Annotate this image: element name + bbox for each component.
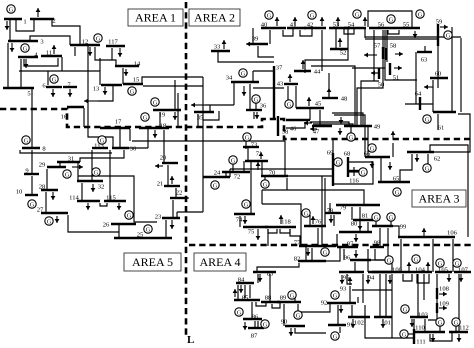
wire 66-65 v [380,158,382,182]
wire 97-96 v [343,249,345,260]
bus 92 [327,302,356,304]
wire 114-115 u [100,203,107,206]
load arrow at bus 117 [119,48,121,57]
svg-text:14: 14 [134,60,141,67]
wire 35 low link [203,111,219,120]
wire 24 left v [202,169,204,212]
load arrow at bus 7 [69,89,71,97]
wire 111 G link [408,333,414,335]
svg-text:115: 115 [106,194,116,201]
load arrow at bus 71 [260,152,262,159]
bus 89 [277,301,301,303]
wire 98-94? v [367,249,369,272]
svg-text:75: 75 [248,228,255,235]
wire 60 stub [437,78,439,88]
svg-text:109: 109 [439,300,450,307]
bus 80 [339,231,372,233]
load arrow at bus 108 [439,293,447,295]
generator at bus 69 [334,158,342,166]
load arrow at bus 21 [171,176,173,184]
bus 72 [222,171,250,173]
svg-text:G: G [254,96,259,103]
wire 44-53 link [305,28,348,73]
bus 47 [312,125,332,127]
wire 56-59 d1 [365,36,461,38]
svg-text:86: 86 [252,313,259,320]
svg-text:110: 110 [415,324,425,331]
bus 1 [4,18,22,20]
bus 78 [325,212,341,214]
svg-text:G: G [263,321,268,328]
generator at bus 34 [239,69,247,77]
AREA 4 label box [194,253,246,271]
wire 40-41 u [283,28,293,36]
svg-text:11: 11 [46,49,52,56]
svg-text:87: 87 [251,332,258,339]
svg-text:12: 12 [82,38,89,45]
bus 19 [153,109,181,111]
wire 107-112 v [458,274,460,332]
wire 25-23 v [165,220,167,237]
generator at bus 77 [321,248,329,256]
wire 34-35 line [205,104,234,106]
wire 12-16 v [87,46,89,110]
wire 56-59 d2 [365,38,438,40]
svg-text:62: 62 [434,155,441,162]
wire 15 h2 [143,85,203,87]
load arrow at bus 81 [359,222,361,230]
load arrow at bus 35 [191,104,205,106]
wire 66 up stub [392,143,394,157]
bus 87 [248,327,264,329]
wire 104-103 v [417,274,419,317]
svg-text:G: G [374,214,379,221]
svg-text:24: 24 [214,169,221,176]
wire 16-113 link [88,110,113,148]
bus 108 [436,288,438,299]
svg-text:21: 21 [157,180,164,187]
load arrow at bus 33 [223,40,225,49]
wire 56-55 loop [368,11,412,27]
generator at bus 70 [261,180,269,188]
svg-text:G: G [425,165,430,172]
bus 30 [112,147,129,149]
wire 92-91 v [337,305,339,325]
bus 77 [299,245,336,247]
load arrow at bus 70 [257,162,259,170]
generator at bus 91 [331,332,339,340]
svg-text:81: 81 [362,212,369,219]
svg-text:G: G [361,169,366,176]
wire 68-65 loop [332,162,373,184]
bus 66 [365,156,390,158]
svg-text:22: 22 [176,189,183,196]
svg-text:G: G [153,99,158,106]
generator at bus 110 [436,318,444,326]
bus 36 [246,109,262,111]
bus 29 [47,166,66,168]
bus 20 [162,162,178,164]
wire 70-76 v [324,178,326,226]
wire 112 G stub a [455,326,457,332]
bus 3 [8,40,38,42]
wire 12-14 [95,47,116,66]
wire 81-80 v [367,222,369,232]
generator at bus 42 [308,11,316,19]
bus 115 [104,200,126,202]
wire 69 up to dashed [332,139,334,153]
svg-text:104: 104 [415,266,426,273]
wire 27-25 [68,215,119,232]
wire 70-79 long [262,190,364,204]
svg-text:83: 83 [267,270,274,277]
load arrow at bus 59 [440,26,448,28]
svg-text:AREA 4: AREA 4 [199,255,240,269]
load arrow at bus 101 [382,319,384,328]
AREA 1 label box [128,9,183,26]
load arrow at bus 76 [312,216,314,224]
bus 69 [332,153,334,186]
area boundary vertical dashed line [185,2,188,336]
wire 103-110 v2 [424,319,426,332]
bus 62 [407,151,434,153]
wire 76 G stub [309,215,311,226]
bus 6 [46,86,62,88]
svg-text:18: 18 [160,122,167,129]
svg-text:98: 98 [374,239,381,246]
svg-text:97: 97 [347,240,354,247]
bus 64 [419,97,421,110]
wire 49-66 v2 [367,127,369,157]
svg-text:28: 28 [39,183,46,190]
generator at bus 8 [22,136,30,144]
svg-text:G: G [52,76,57,83]
load arrow at bus 13 [104,87,106,95]
wire 37 top h [253,70,274,72]
svg-text:69: 69 [327,149,334,156]
wire 92 G stub [357,297,359,303]
wire 35 down stub [197,114,199,127]
wire 70-77 v long [321,176,323,246]
wire 45-47 [319,110,321,126]
wire 15 h1 [142,77,203,84]
bus 17 [100,127,130,129]
load arrow at bus 107 [460,274,462,282]
svg-text:AREA 1: AREA 1 [135,11,176,25]
load arrow at bus 55 [414,31,416,38]
svg-text:43: 43 [277,80,284,87]
wire 110 G stub [439,326,441,332]
wire 3-12 [30,36,70,45]
wire 70 drop [286,178,288,190]
svg-text:54: 54 [348,21,355,28]
generator at bus 113 [98,136,106,144]
wire 50-49 b3 [361,81,379,126]
wire 45-46 [309,108,311,120]
bus 23 [162,217,180,219]
load arrow at bus 118 [280,215,282,224]
svg-text:20: 20 [160,154,167,161]
generator at bus 45 [285,100,293,108]
svg-text:93: 93 [340,285,347,292]
bus 16 [67,106,84,108]
load arrow at bus 42 [321,17,323,26]
wire 46-49 b4 [310,122,349,126]
wire 61 down stub [437,114,439,130]
svg-text:32: 32 [98,183,105,190]
generator at bus 74 [242,200,250,208]
svg-text:G: G [143,114,148,121]
load arrow at bus 80 [355,234,357,242]
wire 88-89 u [272,302,280,308]
svg-text:G: G [336,159,341,166]
wire 4-11 [24,58,58,66]
svg-text:42: 42 [307,21,314,28]
bus 12 [70,44,100,46]
wire 86-87 v [254,321,256,328]
bus 61 [433,111,456,113]
svg-text:106: 106 [447,229,458,236]
svg-text:G: G [127,212,132,219]
generator at bus 89 [288,291,296,299]
svg-text:44: 44 [314,68,321,75]
load arrow at bus 85 [234,289,236,297]
bus 33 [211,50,230,52]
wire 47-49 b8 [334,115,365,126]
svg-text:90: 90 [281,318,288,325]
wire 92-102 v [351,305,353,317]
wire 118 u1 [268,229,277,233]
wire 89-92 link [298,303,330,312]
wire 82-97? link [326,247,340,261]
wire 77-82 v [305,246,307,261]
svg-text:53: 53 [333,21,340,28]
load arrow at bus 112 [458,334,460,342]
bus 28 [41,189,58,191]
wire 54 u [344,29,354,34]
load arrow at bus 16 [84,100,98,102]
AREA 5 label box [124,253,181,271]
wire 39-40 [252,28,254,44]
bus 39 [250,43,268,45]
svg-text:72: 72 [234,173,241,180]
load arrow at bus 53 [337,17,339,26]
svg-text:85: 85 [242,294,249,301]
bus 34 [231,81,259,83]
wire 22-23 [172,200,174,218]
bus 114 [77,200,100,202]
load arrow at bus 12 [89,47,91,56]
wire 34-43 h [253,87,284,89]
generator at bus 24 [211,181,219,189]
svg-text:29: 29 [39,161,46,168]
svg-text:G: G [446,32,451,39]
load arrow at bus 96 [355,250,357,258]
load arrow at bus 114 [87,203,89,210]
wire 77-82 v2 [311,248,313,261]
generator at bus 107 [453,259,461,267]
svg-text:G: G [263,181,268,188]
generator at bus 18 [141,113,149,121]
svg-text:G: G [355,11,360,18]
wire 24-69 long [230,168,333,170]
generator at bus 92 [331,291,339,299]
svg-text:G: G [30,201,35,208]
bus 110 [415,331,445,333]
svg-text:AREA 3: AREA 3 [418,192,459,206]
svg-text:103: 103 [418,311,429,318]
bus 58 [385,48,387,60]
load arrow at bus 106 [423,228,425,236]
svg-text:G: G [290,292,295,299]
svg-text:10: 10 [16,188,23,195]
wire 84-85 v3 [237,285,239,300]
wire 23 stub [176,212,178,218]
wire 69 G stub [335,161,338,163]
bus 45 [296,107,324,109]
load arrow at bus 57 [364,54,377,56]
wire 44-48 v [328,73,330,98]
wire 103-110 v [413,319,415,332]
generator at bus 68 [359,168,367,176]
wire 59-60 v [437,46,439,78]
svg-text:G: G [438,319,443,326]
wire 110-112 link [430,332,452,341]
bus 46 [286,119,310,121]
bus 55 [396,27,420,29]
load arrow at bus 103 [411,319,413,327]
wire 23-24 h [177,211,203,213]
wire 2-12 [52,19,80,45]
wire 44-49 b1 [311,66,355,126]
bus 70 [261,175,288,177]
wire 84-85 v2 [249,285,251,298]
wire 56-50 v [373,30,375,81]
load arrow at bus 92 [340,305,342,313]
bus 102 [348,316,370,318]
bus 21 [164,185,180,187]
svg-text:99: 99 [400,223,407,230]
svg-text:G: G [403,306,408,313]
load arrow at bus 66c [389,162,391,170]
svg-text:117: 117 [108,38,118,45]
svg-text:19: 19 [159,111,166,118]
bus 43 [284,83,298,85]
area boundary horizontal dashed line (areas 1/5 and 2/3) [0,109,474,139]
wire 15-16 link [98,85,113,101]
wire 74-77 link [262,204,301,246]
load arrow at bus 45 [308,97,310,106]
svg-text:57: 57 [374,42,381,49]
svg-text:31: 31 [68,155,75,162]
wire 75-118 v [267,229,269,246]
svg-text:L: L [187,334,194,346]
wire 19-18 [159,112,161,128]
generator at bus 54 [353,10,361,18]
wire 11-13 v [99,58,101,85]
wire 109-103 link [428,313,437,320]
wire 37-34 v [252,71,254,82]
svg-text:60: 60 [435,70,442,77]
svg-text:G: G [418,11,423,18]
bus 100 [372,271,404,273]
bus 117 [106,45,125,47]
svg-text:52: 52 [340,49,347,56]
bus 60 [430,77,448,79]
load arrow at bus 36 [256,112,258,119]
bus 90 [285,325,305,327]
bus 86 [243,318,262,320]
bus 32 [77,180,103,182]
bus 65 [378,181,410,183]
svg-text:76: 76 [315,218,322,225]
wire 39-37 [258,46,274,57]
load arrow at bus 20 [155,165,163,167]
load arrow at bus 1 [6,21,8,30]
load arrow at bus 48 [328,88,330,96]
load arrow at bus 28 [52,192,54,200]
svg-text:35: 35 [197,114,204,121]
load arrow at bus 74 [244,216,246,224]
load arrow at bus 32 [92,184,94,192]
bus 25 [114,237,172,239]
svg-text:84: 84 [238,276,245,283]
generator at bus 112a [452,318,460,326]
svg-text:27: 27 [37,206,44,213]
bus 52 [330,48,348,50]
bus 83 [253,271,276,273]
wire 100-111 v [391,274,393,338]
bus 31 [57,161,80,163]
generator at bus 4 [21,44,29,52]
svg-text:34: 34 [226,74,233,81]
bus 71 [245,160,268,162]
svg-text:80: 80 [351,220,358,227]
generator at bus 15 [128,87,136,95]
generator at bus 87 [261,320,269,328]
wire 106-100 v [400,239,402,272]
load arrow at bus 31 [72,166,83,168]
load arrow at bus 49b [340,117,342,124]
load arrow at bus 110 [432,334,434,342]
svg-text:G: G [454,319,459,326]
bus 105 [435,271,452,273]
generator at bus 19 [151,98,159,106]
wire 41-42 u [300,28,312,36]
generator at bus 65 [393,188,401,196]
load arrow at bus 93 [349,277,351,285]
wire 93-92 v [349,286,351,303]
wire 104-105 u [417,274,429,283]
wire 53-52 [335,28,337,49]
bus 95 [339,271,364,273]
wire 99 G stub b [390,221,392,226]
wire 49 G stub [350,127,352,133]
wire 9-10 [31,176,33,195]
wire 30-31 link [80,150,124,162]
wire 117 stub [111,48,113,60]
svg-text:70: 70 [269,169,276,176]
svg-text:107: 107 [458,266,469,273]
load arrow at bus 104 [427,262,429,271]
svg-text:56: 56 [378,21,385,28]
bus 35 [194,111,214,113]
wire 51-49 b2 [357,70,383,126]
svg-text:74: 74 [236,216,243,223]
wire 43-45 v [287,86,289,104]
wire 43-45 r [295,86,297,108]
area boundary horizontal dashed line (areas 3/4) [189,244,474,247]
